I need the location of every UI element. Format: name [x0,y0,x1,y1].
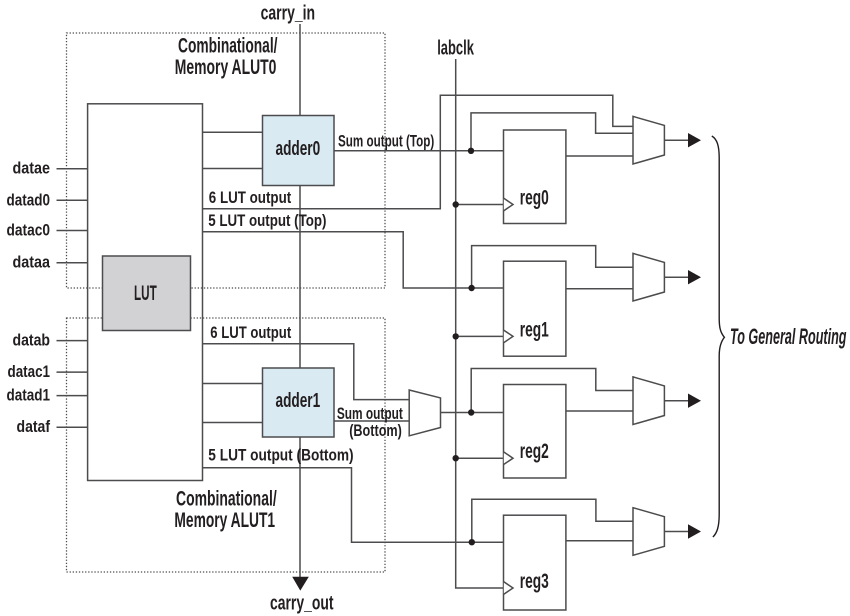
svg-text:5 LUT output (Top): 5 LUT output (Top) [208,211,326,230]
svg-text:Combinational/: Combinational/ [176,488,277,511]
svg-text:datad1: datad1 [7,386,51,405]
svg-text:datad0: datad0 [7,190,51,209]
svg-text:Memory ALUT1: Memory ALUT1 [174,509,275,532]
svg-text:labclk: labclk [437,38,474,60]
svg-text:Sum output (Top): Sum output (Top) [338,132,434,151]
svg-text:dataa: dataa [13,253,51,272]
svg-text:adder1: adder1 [276,390,321,412]
svg-text:Combinational/: Combinational/ [178,35,278,58]
svg-text:reg0: reg0 [520,186,549,210]
svg-text:To General Routing: To General Routing [730,324,847,349]
svg-text:reg1: reg1 [520,317,549,341]
svg-text:dataf: dataf [17,417,51,436]
svg-text:(Bottom): (Bottom) [349,421,402,440]
svg-text:datab: datab [13,331,51,350]
svg-text:adder0: adder0 [276,138,321,160]
svg-text:5 LUT output (Bottom): 5 LUT output (Bottom) [208,446,353,465]
svg-text:datac1: datac1 [8,362,51,381]
svg-text:datae: datae [13,159,51,178]
svg-text:reg2: reg2 [520,439,549,463]
svg-text:6 LUT output: 6 LUT output [209,188,292,207]
svg-text:datac0: datac0 [7,220,51,239]
svg-text:carry_out: carry_out [270,592,334,614]
svg-text:Memory ALUT0: Memory ALUT0 [175,56,277,79]
svg-text:reg3: reg3 [520,569,549,593]
svg-text:LUT: LUT [134,282,157,305]
svg-text:carry_in: carry_in [261,3,316,25]
svg-text:6 LUT output: 6 LUT output [210,323,291,342]
